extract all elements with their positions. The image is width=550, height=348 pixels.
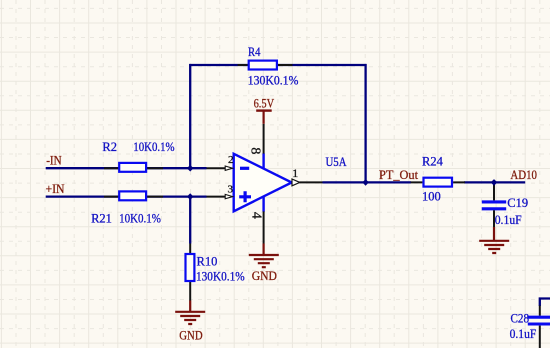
svg-text:100: 100 xyxy=(422,190,441,204)
resistor R4 xyxy=(249,61,277,70)
resistor R2 pins xyxy=(104,167,163,169)
capacitor C19 plates xyxy=(482,202,506,209)
svg-text:+IN: +IN xyxy=(46,182,65,196)
power port 6.5V stem xyxy=(263,111,265,124)
ground (R10) bars xyxy=(175,312,205,324)
svg-text:130K0.1%: 130K0.1% xyxy=(196,269,245,283)
svg-text:R10: R10 xyxy=(197,255,218,269)
op-amp U5A body xyxy=(234,154,292,212)
svg-text:C28: C28 xyxy=(511,311,530,325)
svg-text:4: 4 xyxy=(248,212,263,219)
svg-text:C19: C19 xyxy=(507,196,528,210)
ground (R10) stem xyxy=(189,301,191,312)
op-amp pin 8 (V+) xyxy=(263,124,265,154)
power port 6.5V bar xyxy=(256,109,272,111)
svg-text:8: 8 xyxy=(248,147,263,154)
wire -IN net xyxy=(46,167,207,169)
svg-text:R4: R4 xyxy=(248,45,261,59)
svg-text:AD10: AD10 xyxy=(510,168,537,182)
junction at -IN / feedback xyxy=(187,165,194,172)
wire R24 to AD10 xyxy=(464,181,525,183)
svg-text:-IN: -IN xyxy=(46,153,62,167)
svg-text:U5A: U5A xyxy=(326,155,347,169)
svg-text:0.1uF: 0.1uF xyxy=(495,213,522,227)
svg-text:3: 3 xyxy=(228,184,234,196)
junction at +IN / R10 xyxy=(187,193,194,200)
svg-text:0.1uF: 0.1uF xyxy=(510,327,537,341)
svg-text:2: 2 xyxy=(228,154,234,166)
svg-text:PT_Out: PT_Out xyxy=(379,168,419,182)
svg-text:GND: GND xyxy=(179,328,202,342)
capacitor C28 plates xyxy=(528,317,550,324)
junction at feedback / output xyxy=(362,179,369,186)
resistor R2 xyxy=(119,163,146,172)
resistor R10 xyxy=(186,254,195,281)
capacitor C28 top pin xyxy=(539,306,541,316)
wire C28 net (bottom right) xyxy=(540,299,550,307)
svg-text:R2: R2 xyxy=(102,140,117,154)
capacitor C19 top pin xyxy=(493,182,495,200)
wire feedback loop (junction up, over R4, down to output) xyxy=(190,65,365,182)
svg-text:130K0.1%: 130K0.1% xyxy=(248,74,299,88)
svg-text:R21: R21 xyxy=(91,211,112,225)
ground (C19) bars xyxy=(479,241,509,253)
svg-text:1: 1 xyxy=(292,166,298,180)
resistor R4 pins xyxy=(238,64,293,66)
op-amp pin 3 xyxy=(207,196,226,198)
svg-text:10K0.1%: 10K0.1% xyxy=(119,211,161,225)
wire R10 branch down from +IN junction xyxy=(189,197,191,244)
op-amp pin 1 (output) xyxy=(300,181,323,183)
op-amp pin 2 xyxy=(207,167,226,169)
capacitor C28 bottom pin xyxy=(539,326,541,348)
op-amp power stubs (blue) xyxy=(262,153,264,211)
ground (op-amp) bars xyxy=(249,255,279,267)
capacitor C19 bottom pin xyxy=(493,210,495,227)
junction at C19 tap xyxy=(491,179,498,186)
svg-text:6.5V: 6.5V xyxy=(254,97,275,111)
svg-text:10K0.1%: 10K0.1% xyxy=(133,140,174,154)
resistor R24 xyxy=(424,178,453,187)
resistor R10 pins xyxy=(189,244,191,301)
op-amp minus symbol xyxy=(240,167,249,170)
wire +IN net xyxy=(46,195,207,197)
resistor R21 xyxy=(119,191,146,200)
op-amp pin 4 (V-) xyxy=(263,211,265,243)
ground (op-amp) stem xyxy=(263,244,265,255)
resistor R24 pins xyxy=(411,181,465,183)
resistor R21 pins xyxy=(104,196,163,198)
ground (C19) stem xyxy=(493,227,495,241)
wire op-amp output to R24 xyxy=(323,181,412,183)
svg-text:R24: R24 xyxy=(422,154,444,168)
op-amp plus symbol xyxy=(239,191,251,202)
svg-text:GND: GND xyxy=(252,269,277,283)
